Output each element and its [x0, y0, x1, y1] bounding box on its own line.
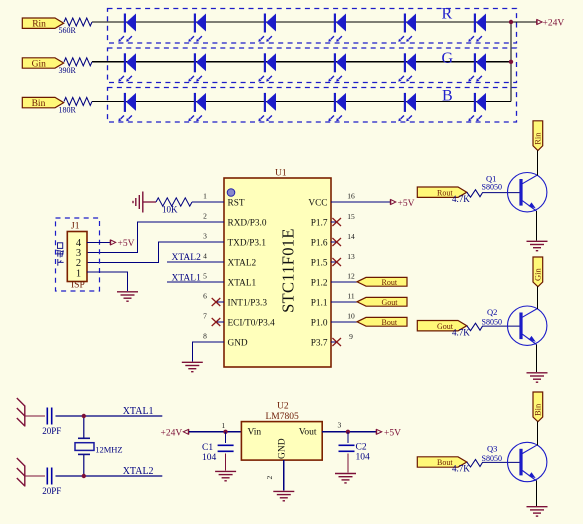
svg-text:C1: C1 — [202, 443, 213, 453]
svg-text:Q2: Q2 — [487, 307, 497, 317]
svg-text:U2: U2 — [277, 402, 289, 412]
svg-text:Vin: Vin — [248, 428, 262, 438]
svg-text:180R: 180R — [59, 105, 77, 114]
svg-text:16: 16 — [347, 192, 355, 201]
svg-text:J1: J1 — [71, 222, 80, 232]
svg-text:4: 4 — [203, 252, 207, 261]
svg-text:20PF: 20PF — [42, 486, 61, 496]
svg-text:XTAL2: XTAL2 — [123, 466, 154, 477]
svg-text:+5V: +5V — [384, 428, 401, 438]
svg-text:Gout: Gout — [382, 298, 399, 307]
svg-text:XTAL1: XTAL1 — [172, 273, 202, 283]
svg-text:9: 9 — [349, 332, 353, 341]
svg-text:S8050: S8050 — [482, 318, 502, 327]
svg-text:Rout: Rout — [382, 278, 398, 287]
svg-text:3: 3 — [338, 421, 342, 430]
svg-text:Rin: Rin — [533, 132, 543, 145]
svg-text:4.7K: 4.7K — [452, 194, 470, 204]
svg-text:R: R — [442, 5, 453, 22]
svg-text:Bout: Bout — [437, 458, 453, 467]
svg-text:G: G — [442, 50, 454, 67]
svg-text:4.7K: 4.7K — [452, 327, 470, 337]
svg-text:RXD/P3.0: RXD/P3.0 — [228, 219, 267, 229]
svg-text:Bout: Bout — [382, 318, 398, 327]
svg-text:S8050: S8050 — [482, 182, 502, 191]
svg-text:S8050: S8050 — [482, 454, 502, 463]
svg-text:12MHZ: 12MHZ — [95, 445, 122, 455]
svg-text:Q3: Q3 — [487, 443, 497, 453]
svg-text:P3.7: P3.7 — [311, 339, 328, 349]
svg-text:10K: 10K — [162, 205, 178, 215]
svg-text:2: 2 — [203, 212, 207, 221]
svg-text:+5V: +5V — [118, 239, 135, 249]
svg-text:P1.6: P1.6 — [311, 239, 328, 249]
svg-text:STC11F01E: STC11F01E — [279, 228, 298, 313]
svg-text:TXD/P3.1: TXD/P3.1 — [228, 239, 267, 249]
svg-text:3: 3 — [203, 232, 207, 241]
svg-text:12: 12 — [347, 272, 355, 281]
svg-text:INT1/P3.3: INT1/P3.3 — [228, 299, 268, 309]
svg-text:XTAL1: XTAL1 — [123, 406, 154, 417]
svg-text:10: 10 — [347, 312, 355, 321]
svg-text:Gin: Gin — [533, 268, 543, 282]
svg-text:P1.5: P1.5 — [311, 259, 328, 269]
svg-text:8: 8 — [203, 332, 207, 341]
svg-text:ISP: ISP — [71, 281, 85, 291]
svg-text:GND: GND — [228, 339, 248, 349]
svg-text:Gin: Gin — [32, 59, 46, 69]
svg-text:Rin: Rin — [32, 20, 46, 30]
svg-text:+24V: +24V — [543, 19, 565, 29]
svg-text:LM7805: LM7805 — [266, 412, 300, 422]
svg-text:ECI/T0/P3.4: ECI/T0/P3.4 — [228, 319, 276, 329]
svg-text:15: 15 — [347, 212, 355, 221]
svg-text:4.7K: 4.7K — [452, 464, 470, 474]
svg-text:560R: 560R — [59, 26, 77, 35]
svg-text:+24V: +24V — [161, 429, 183, 439]
svg-text:U1: U1 — [275, 169, 287, 179]
svg-text:1: 1 — [76, 268, 81, 279]
svg-text:1: 1 — [203, 192, 207, 201]
svg-text:B: B — [442, 87, 453, 104]
svg-text:Bin: Bin — [32, 99, 46, 109]
svg-text:104: 104 — [356, 452, 371, 462]
svg-text:P1.7: P1.7 — [311, 219, 328, 229]
svg-text:20PF: 20PF — [42, 426, 61, 436]
svg-text:C2: C2 — [356, 442, 367, 452]
svg-text:+5V: +5V — [398, 199, 415, 209]
svg-text:7: 7 — [203, 312, 207, 321]
svg-text:390R: 390R — [59, 66, 77, 75]
svg-text:P1.1: P1.1 — [311, 299, 328, 309]
svg-text:Vout: Vout — [299, 428, 317, 438]
svg-text:13: 13 — [347, 252, 355, 261]
svg-text:XTAL1: XTAL1 — [228, 279, 257, 289]
svg-text:11: 11 — [347, 292, 354, 301]
svg-text:104: 104 — [202, 453, 217, 463]
svg-text:1: 1 — [222, 421, 226, 430]
svg-text:GND: GND — [278, 438, 288, 459]
svg-text:VCC: VCC — [308, 199, 327, 209]
svg-text:2: 2 — [265, 476, 274, 480]
svg-text:XTAL2: XTAL2 — [228, 259, 257, 269]
svg-text:P1.0: P1.0 — [311, 319, 328, 329]
svg-text:RST: RST — [228, 199, 245, 209]
svg-text:XTAL2: XTAL2 — [172, 253, 202, 263]
svg-text:Bin: Bin — [533, 403, 543, 416]
svg-text:P1.2: P1.2 — [311, 279, 328, 289]
svg-text:Rout: Rout — [437, 188, 453, 197]
svg-text:14: 14 — [347, 232, 355, 241]
svg-text:5: 5 — [203, 272, 207, 281]
svg-text:6: 6 — [203, 292, 207, 301]
